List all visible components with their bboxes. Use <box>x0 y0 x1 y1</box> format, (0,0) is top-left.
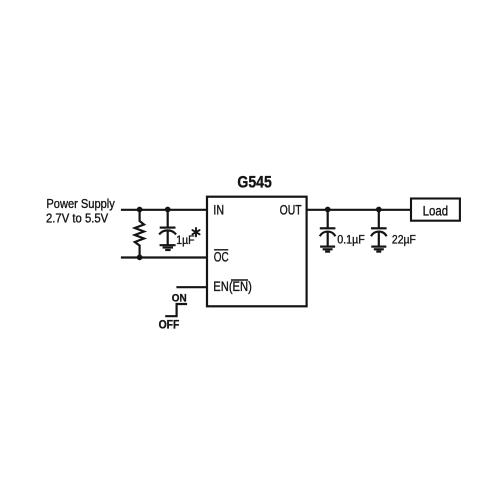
svg-text:0.1µF: 0.1µF <box>337 233 365 247</box>
svg-text:OC: OC <box>214 250 229 265</box>
svg-text:ON: ON <box>172 292 187 304</box>
svg-text:Power Supply: Power Supply <box>46 196 115 211</box>
svg-text:G545: G545 <box>237 173 271 192</box>
svg-text:OFF: OFF <box>159 319 180 331</box>
svg-text:2.7V to 5.5V: 2.7V to 5.5V <box>46 211 108 226</box>
svg-text:1µF: 1µF <box>176 233 194 247</box>
svg-text:Load: Load <box>423 204 449 219</box>
svg-text:IN: IN <box>213 203 224 218</box>
svg-text:OUT: OUT <box>280 203 302 218</box>
svg-text:22µF: 22µF <box>392 233 416 247</box>
svg-text:EN(EN): EN(EN) <box>213 279 252 294</box>
